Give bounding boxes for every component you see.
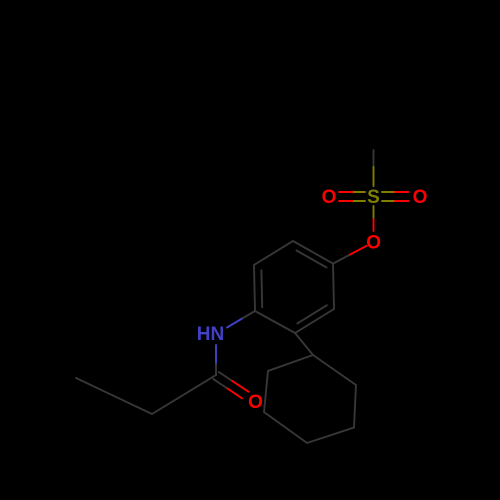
benzene to cyclohexyl bond [295,333,313,355]
S-O ester bond [373,206,375,219]
svg-text:O: O [413,187,428,208]
atom labels [197,187,428,413]
N-C(=O) bond [215,345,217,364]
benzene inner double bond lines [261,251,327,324]
svg-text:HN: HN [197,324,224,345]
cyclohexane ring [264,355,356,443]
svg-text:O: O [322,187,337,208]
O-ring bond (ester O to benzene NE) [349,246,367,256]
svg-text:O: O [366,233,381,254]
N-ring bond [227,318,243,328]
amide C=O double bond [219,372,232,381]
sulfonyl S=O right double bond [382,192,395,201]
benzene ring [254,241,334,333]
svg-text:S: S [367,187,380,208]
propanamide chain: C-CH2 [152,375,216,414]
methyl C-S bond [373,150,375,167]
svg-text:O: O [248,392,263,413]
sulfonyl S=O left double bond [353,192,366,201]
propanamide chain: CH2-CH3 [76,378,152,414]
